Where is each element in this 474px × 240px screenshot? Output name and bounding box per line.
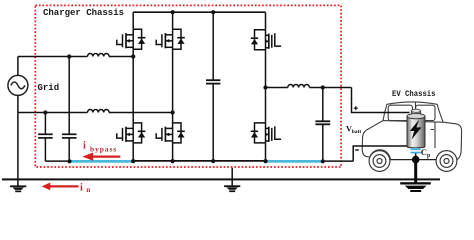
wire line (top grid wire): [18, 56, 133, 58]
node line to leg1: [131, 54, 135, 58]
transistor Q1: [117, 29, 146, 49]
earth ground bus line: [2, 178, 440, 180]
transistor Q5 (mirrored): [251, 30, 281, 50]
wire battery minus return: [353, 146, 409, 161]
node line CY2: [67, 54, 71, 58]
transistor Q3: [117, 123, 146, 143]
svg-text:bypass: bypass: [90, 145, 117, 154]
wire chassis earth stub (middle): [231, 168, 233, 186]
svg-text:n: n: [86, 185, 90, 194]
svg-text:batt: batt: [352, 129, 362, 135]
node output Co top: [321, 85, 325, 89]
inductor L1 (line): [88, 53, 110, 56]
wire output phase node: [266, 87, 352, 89]
node bus Cdc bottom: [211, 159, 215, 163]
node bus Q4 source: [171, 159, 175, 163]
capacitor CY2: [62, 57, 77, 162]
node bus Co bottom: [321, 159, 325, 163]
node top bus Cdc: [211, 10, 215, 14]
node output phase: [263, 85, 267, 89]
wire leg2 vertical (phase B): [172, 12, 174, 161]
arrow i n (red, pointing left): [42, 183, 79, 191]
wire DC- bus black segment left: [45, 160, 70, 162]
label +: [354, 106, 358, 110]
node neutral leg2: [171, 110, 175, 114]
svg-text:Charger Chassis: Charger Chassis: [43, 8, 124, 18]
svg-text:i: i: [83, 140, 86, 151]
transistor Q2: [156, 29, 185, 49]
node Cp chassis: [412, 156, 420, 164]
AC source V grid: [8, 75, 28, 95]
wire AC bottom lead down to earth: [17, 95, 19, 185]
wire leg3 vertical: [265, 12, 267, 161]
inductor L2 (neutral): [88, 110, 110, 113]
wire AC top lead to line wire: [17, 57, 19, 76]
ground symbol middle (charger chassis earth): [224, 185, 240, 192]
capacitor CY1: [38, 113, 53, 162]
wire neutral (bottom grid wire): [18, 112, 173, 114]
ground symbol left (grid neutral earth): [10, 185, 26, 192]
inductor Lo (output): [288, 85, 310, 88]
capacitor Co (output): [315, 88, 330, 162]
arrow i bypass (red, pointing left): [82, 153, 120, 161]
wire DC- bus black middle: [132, 160, 267, 162]
transistor Q4: [156, 123, 185, 143]
svg-text:Grid: Grid: [38, 83, 60, 93]
(wire to battery + moved below car): [351, 88, 353, 100]
svg-text:EV Chassis: EV Chassis: [392, 90, 436, 99]
svg-text:i: i: [80, 183, 83, 194]
node bus Q3 source: [131, 159, 135, 163]
label minus: [355, 149, 359, 151]
wire EV chassis to earth (thick): [414, 162, 417, 183]
wheel rear (right): [436, 151, 457, 172]
wire bypass cyan segment 1: [70, 160, 135, 163]
wire DC+ top bus: [133, 11, 265, 13]
svg-text:p: p: [427, 153, 430, 159]
wire bypass cyan segment 2: [265, 160, 324, 163]
capacitor Cp (blue): [411, 148, 421, 160]
node bus CY2 bottom: [67, 159, 71, 163]
ground symbol EV (earth under car): [400, 182, 431, 192]
node neutral CY1: [43, 110, 47, 114]
node top bus leg2: [171, 10, 175, 14]
node bus Q6 source: [263, 159, 267, 163]
wire leg1 vertical (phase A): [132, 12, 134, 161]
wheel front (left): [369, 151, 390, 172]
transistor Q6 (mirrored): [251, 123, 281, 143]
battery EV: [407, 109, 425, 147]
capacitor Cdc (DC link): [206, 12, 220, 161]
EV car body outline: [362, 102, 461, 160]
charger chassis red dashed boundary: [35, 5, 341, 167]
wire DC- bus black right: [322, 160, 353, 162]
car sill line: [390, 159, 436, 161]
wire to battery +: [352, 98, 410, 113]
